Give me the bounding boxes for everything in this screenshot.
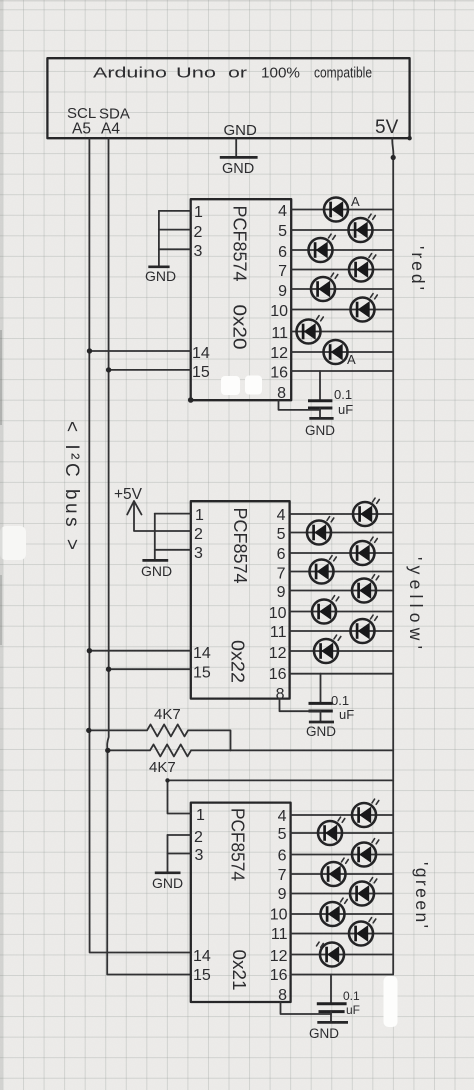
LED D24 [320,943,344,967]
LED D13 [352,579,376,603]
light ticks D14 [332,596,339,601]
wire U3 address tie vertical [167,835,169,873]
ground symbol U1 address pins [148,265,169,268]
wire U3 pin6 row [291,854,394,856]
wire SDA bus (A4 down left side to U3 pin15) [107,138,191,974]
node corner pin1 feed [165,778,169,782]
LED D22 [321,902,345,926]
node junction SCL / U1 pin14 [87,348,92,353]
wire U1 pin14 to SCL [90,350,191,352]
wire U2 pin4 row [290,513,394,515]
wire U3 pin10 row [291,913,394,915]
light ticks D18 [338,817,345,822]
IC U1 PCF8574 0x20 body [191,199,292,400]
wire C2 top lead [320,674,322,703]
LED D23 [349,922,373,946]
wire U3 pin4 row [291,814,394,816]
wire U2 pin2 to +5V arrow [134,502,191,531]
wire U2 address tie vertical [154,514,156,561]
light ticks D20 [342,858,349,863]
wire U1 pin2 stub [159,229,191,231]
light ticks D4 [369,254,376,259]
node junction SCL / U2 pin14 [87,648,92,653]
LED D7 [297,320,321,344]
LED D11 [351,541,375,565]
capacitor C1 plates [308,401,332,408]
light ticks D16 [334,635,341,640]
wire U3 pin1 to +5V feed [168,780,394,813]
LED D6 [351,298,375,322]
wire U1 pin6 row [291,249,393,251]
LED D12 [310,560,334,584]
wire U1 pin15 to SDA [109,369,191,371]
ground symbol U2 address pins [142,559,168,562]
wire C1 top lead [319,371,321,400]
wire U1 pin10 row [291,309,393,311]
wire U1 pin4 row [291,209,393,211]
wire U2 pin9 row [290,590,394,592]
wire Arduino GND stub [235,138,237,157]
light ticks D7 [317,316,324,321]
light ticks D11 [371,537,378,542]
LED D21 [350,882,374,906]
LED D10 [307,521,331,545]
wire U2 pin8 to ground [280,699,321,712]
wire U2 pin6 row [290,552,394,554]
node junction SDA / U1 pin15 [106,367,111,372]
LED D1 [324,198,348,222]
Arduino title text [93,65,372,82]
node junction 5V rail top [391,155,396,160]
LED D15 [351,619,375,643]
Arduino Uno board outline [47,58,409,138]
wire pullups to 5V rail [231,749,394,751]
LED D17 [352,803,376,827]
LED D9 [353,502,377,526]
IC U2 PCF8574 0x22 body [191,501,290,698]
light ticks D5 [331,273,338,278]
wire U1 pin8 to ground [279,400,321,410]
node junction SDA / U2 pin15 [106,667,111,672]
wire U2 pin14 to SCL [89,650,190,652]
light ticks D2 [369,214,376,219]
capacitor C3 plates [317,1004,347,1012]
wire U2 pin5 row [290,532,394,534]
wire U3 pin9 row [291,893,394,895]
ground symbol C2 [309,721,334,724]
LED D20 [322,862,346,886]
wire U2 pin12 row [290,650,394,652]
wire U2 pin1 stub [155,513,191,515]
wire U1 pin11 row [291,331,393,333]
LED D18 [318,821,342,845]
wire U1 address tie vertical [158,211,160,267]
light ticks D13 [372,575,379,580]
wire U1 pin5 row [291,229,393,231]
light ticks D6 [371,294,378,299]
LED D8 [324,340,348,364]
wire U3 pin7 row [291,873,394,875]
light ticks D12 [330,556,337,561]
LED D19 [352,843,376,867]
ground symbol below Arduino GND [220,156,258,159]
wire U2 pin16 row to 5V rail [290,673,394,675]
wire C3 bottom lead [330,1012,332,1023]
wire U3 pin16 row to 5V rail [291,974,394,976]
LED D4 [349,258,373,282]
LED D5 [311,277,335,301]
wire U3 pin12 row [291,954,394,956]
+5V arrowhead [127,501,141,515]
wire U3 pin8 to ground [281,1002,332,1014]
wire U3 pin5 row [291,832,394,834]
wire U2 pin15 to SDA [109,668,191,670]
wire U1 pin9 row [291,288,393,290]
wire U2 pin10 row [290,611,394,613]
light ticks D3 [329,234,336,239]
node junction SDA / R2 [105,748,110,753]
node corner Arduino box bottom-right [407,136,411,140]
light ticks D24 [317,942,324,947]
wire U3 pin3 stub [168,853,191,855]
LED D3 [309,238,333,262]
ground symbol C1 [309,417,333,420]
IC U3 PCF8574 0x21 body [191,803,291,1002]
light ticks D10 [327,517,334,522]
wire U3 pin2 stub [168,834,191,836]
wire C3 top lead [330,975,332,1004]
light ticks D9 [373,498,380,503]
wire U1 pin1 stub [159,210,191,212]
ground symbol C3 [317,1021,348,1024]
wire U1 pin3 stub [159,248,191,250]
pen mark chip1 corner [188,397,194,403]
wire C1 bottom lead [319,408,321,418]
LED D16 [314,639,338,663]
wire U1 pin16 row to 5V rail [291,370,393,372]
resistor R1 (SCL pullup) [89,724,230,750]
LED D2 [349,218,373,242]
light ticks D15 [371,615,378,620]
wire U2 pin7 row [290,571,394,573]
node junction SCL / R1 [86,728,91,733]
LED D14 [312,600,336,624]
light ticks D17 [372,799,379,804]
light ticks D19 [372,839,379,844]
light ticks D21 [370,878,377,883]
wire U3 pin11 row [291,933,394,935]
wire C2 bottom lead [320,711,322,722]
wire U2 pin3 stub [155,549,191,551]
wire +5V rail (right side) [392,138,393,973]
wire U1 pin12 row [291,351,393,353]
capacitor C2 plates [309,703,333,711]
wire SCL bus (A5 down left side to U3 pin14) [89,138,191,952]
resistor R2 (SDA pullup) [108,744,231,756]
light ticks D23 [369,918,376,923]
ground symbol U3 address pins [155,871,181,874]
wire U1 pin7 row [291,269,393,271]
wire U2 pin11 row [290,630,394,632]
light ticks D22 [341,898,348,903]
